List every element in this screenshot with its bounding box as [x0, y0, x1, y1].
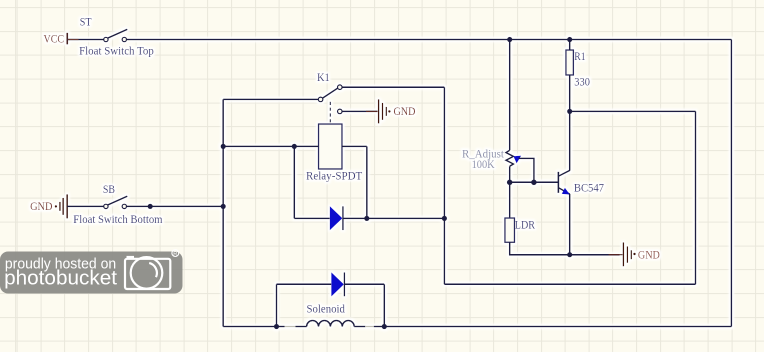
- svg-text:330: 330: [574, 75, 590, 89]
- svg-text:GND: GND: [394, 104, 416, 118]
- wire diode2 anode: [277, 283, 332, 285]
- wire diode1 right vertical: [366, 146, 368, 218]
- svg-text:BC547: BC547: [574, 180, 604, 194]
- relay coil U Relay-SPDT: [306, 124, 363, 183]
- svg-text:Solenoid: Solenoid: [307, 301, 345, 315]
- svg-text:Float Switch Bottom: Float Switch Bottom: [73, 212, 163, 226]
- junction coil left at vertical: [221, 144, 226, 149]
- svg-text:VCC: VCC: [44, 32, 65, 46]
- junction diode1 cathode: [364, 216, 369, 221]
- junction wiper: [531, 180, 537, 186]
- wire collector rail: [570, 110, 696, 112]
- wire coil left: [223, 145, 318, 147]
- diode D2 (solenoid flyback): [331, 272, 344, 296]
- resistor R1: [566, 49, 590, 89]
- wire SB to left vertical: [127, 205, 224, 207]
- junction solenoid right: [382, 324, 387, 329]
- junction pot top at rail: [507, 37, 512, 42]
- wire diode1 cathode: [343, 217, 445, 219]
- potentiometer R_Adjust: [462, 40, 534, 183]
- svg-text:GND: GND: [638, 248, 660, 262]
- switch ST (Float Switch Top): [79, 15, 154, 58]
- svg-text:SB: SB: [103, 182, 115, 196]
- wire LDR bottom: [510, 242, 620, 254]
- junction R1 top: [567, 37, 572, 42]
- wire emitter vertical: [569, 194, 571, 255]
- power port GND (left): [30, 194, 67, 218]
- transistor Q1 BC547: [558, 170, 604, 194]
- junction coil left diode tap: [292, 144, 297, 149]
- junction emitter at bottom rail: [567, 252, 572, 257]
- power port VCC: [44, 32, 68, 46]
- wire left vertical: [222, 99, 224, 326]
- svg-text:K1: K1: [317, 70, 330, 84]
- svg-text:Float Switch Top: Float Switch Top: [79, 43, 154, 57]
- wire base: [510, 181, 558, 183]
- junction pot bottom: [507, 180, 513, 186]
- wire right edge vertical: [730, 40, 732, 327]
- inductor Solenoid: [277, 301, 385, 326]
- wire LDR top: [509, 182, 511, 218]
- junction throw vertical at diode rail: [442, 216, 447, 221]
- wire bottom rail left part: [223, 326, 276, 328]
- switch SB (Float Switch Bottom): [73, 182, 163, 226]
- wire lower cross rail: [444, 283, 695, 285]
- wire bottom rail right part: [384, 326, 731, 328]
- wire coil right: [342, 145, 367, 147]
- diode D1 (relay flyback): [330, 206, 343, 230]
- svg-text:LDR: LDR: [515, 218, 535, 232]
- power port GND (right): [609, 243, 661, 267]
- svg-text:Relay-SPDT: Relay-SPDT: [306, 169, 363, 183]
- junction SB at left vertical: [221, 204, 226, 209]
- svg-text:GND: GND: [30, 199, 53, 213]
- wire K1 top throw: [342, 86, 444, 88]
- power port GND (middle): [379, 99, 416, 123]
- relay K1 switch: [317, 70, 342, 124]
- wire diode1 left vertical: [293, 146, 295, 218]
- junction SB wire: [148, 204, 153, 209]
- wire K1 throw vertical: [443, 87, 445, 284]
- wire VCC to ST: [67, 39, 103, 41]
- wire GND to SB: [67, 205, 104, 207]
- svg-text:photobucket: photobucket: [4, 267, 117, 290]
- junction collector node: [567, 109, 572, 114]
- wire ST to top-right rail: [127, 39, 732, 41]
- photobucket watermark badge: [0, 250, 183, 294]
- wire R1 bottom to collector: [569, 75, 571, 171]
- wire diode2 cathode: [344, 283, 384, 285]
- junction solenoid left: [274, 324, 279, 329]
- svg-text:100K: 100K: [472, 157, 495, 171]
- svg-text:R1: R1: [574, 49, 585, 63]
- svg-text:R: R: [173, 251, 177, 257]
- wire K1 bottom throw to GND: [342, 110, 378, 112]
- wire collector right vertical: [695, 111, 697, 284]
- wire diode1 anode: [294, 217, 330, 219]
- wire R1 top: [569, 40, 571, 51]
- wire K1 pole: [223, 98, 318, 100]
- wire solenoid left vertical: [276, 284, 278, 326]
- resistor LDR: [505, 218, 535, 243]
- wire solenoid right vertical: [383, 284, 385, 326]
- svg-text:ST: ST: [80, 15, 92, 29]
